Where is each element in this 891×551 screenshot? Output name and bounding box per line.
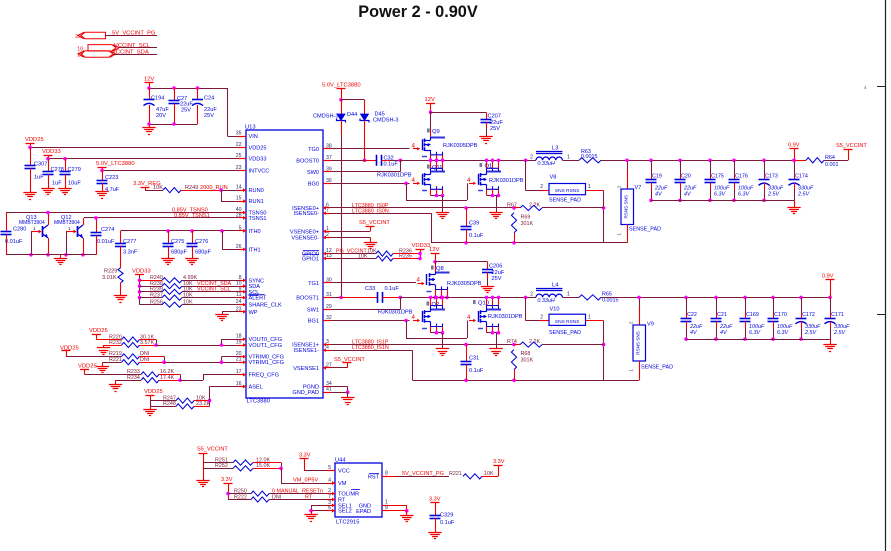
svg-text:S5_VCCINT: S5_VCCINT	[836, 143, 867, 149]
svg-text:RUN0: RUN0	[249, 188, 264, 194]
svg-text:680pF: 680pF	[171, 250, 187, 256]
svg-text:R229: R229	[104, 268, 117, 274]
svg-text:4: 4	[467, 177, 471, 184]
svg-text:4: 4	[417, 276, 421, 283]
svg-text:10K: 10K	[367, 249, 377, 255]
svg-text:1: 1	[68, 226, 71, 232]
svg-text:C277: C277	[123, 239, 136, 245]
svg-text:5V_VCCINT_PG: 5V_VCCINT_PG	[112, 31, 156, 37]
svg-text:R222: R222	[234, 494, 247, 500]
svg-text:25V: 25V	[181, 107, 191, 113]
svg-text:BG0: BG0	[308, 181, 319, 187]
svg-text:MMBT3904: MMBT3904	[19, 220, 45, 226]
svg-text:C21: C21	[717, 312, 727, 318]
svg-text:C176: C176	[735, 174, 748, 180]
svg-text:C275: C275	[171, 239, 184, 245]
svg-text:C19: C19	[652, 174, 662, 180]
svg-text:GPIO1: GPIO1	[302, 256, 319, 262]
svg-text:TG0: TG0	[308, 147, 319, 153]
svg-text:V10: V10	[550, 307, 560, 313]
svg-text:ASEL: ASEL	[249, 385, 263, 391]
svg-text:ITH0: ITH0	[249, 229, 261, 235]
svg-text:12V: 12V	[429, 247, 439, 253]
svg-text:R237: R237	[150, 292, 163, 298]
svg-text:0.33uH: 0.33uH	[537, 161, 554, 167]
svg-text:20: 20	[75, 34, 81, 40]
svg-text:RJK0301DPB: RJK0301DPB	[377, 173, 412, 179]
svg-text:VM: VM	[338, 481, 347, 487]
svg-text:5.0V_LTC3880: 5.0V_LTC3880	[322, 83, 361, 89]
svg-text:2: 2	[326, 232, 329, 238]
svg-text:12V: 12V	[144, 76, 154, 82]
svg-text:Q10: Q10	[478, 301, 489, 307]
svg-text:0.1uF: 0.1uF	[440, 520, 455, 526]
svg-text:VDD25: VDD25	[249, 145, 267, 151]
svg-text:ISENSE0-: ISENSE0-	[294, 211, 320, 217]
svg-text:SENSE_PAD: SENSE_PAD	[629, 227, 661, 233]
svg-text:2.2K: 2.2K	[529, 339, 540, 345]
svg-text:SENSE_PAD: SENSE_PAD	[549, 330, 581, 336]
svg-text:680pF: 680pF	[195, 250, 211, 256]
svg-text:3.3nF: 3.3nF	[123, 250, 138, 256]
svg-text:6.3V: 6.3V	[738, 192, 750, 198]
svg-text:0.0015: 0.0015	[602, 298, 619, 304]
svg-text:ITH1: ITH1	[249, 247, 261, 253]
svg-text:10K: 10K	[183, 300, 193, 306]
svg-text:Q1: Q1	[485, 164, 493, 170]
svg-text:7: 7	[326, 208, 329, 214]
svg-text:2: 2	[617, 185, 622, 188]
svg-text:C22: C22	[687, 312, 697, 318]
svg-text:R249: R249	[185, 185, 198, 191]
svg-text:BOOST1: BOOST1	[296, 295, 319, 301]
svg-text:VCC: VCC	[338, 469, 350, 475]
svg-text:0.1uF: 0.1uF	[469, 233, 484, 239]
svg-text:0.9V: 0.9V	[822, 274, 834, 280]
svg-text:2.5V: 2.5V	[833, 330, 846, 336]
svg-text:15: 15	[236, 196, 242, 202]
svg-text:6.3V: 6.3V	[777, 330, 789, 336]
svg-text:SENSE_PAD: SENSE_PAD	[549, 198, 581, 204]
svg-text:RUN1: RUN1	[249, 199, 264, 205]
svg-text:INTVCC: INTVCC	[249, 168, 270, 174]
svg-text:C171: C171	[831, 312, 844, 318]
svg-text:C194: C194	[151, 96, 164, 102]
svg-text:Q2: Q2	[432, 302, 440, 308]
svg-text:VDD33: VDD33	[132, 268, 151, 274]
svg-text:VCCINT_SCL: VCCINT_SCL	[197, 287, 231, 293]
svg-text:Q9: Q9	[432, 129, 440, 135]
svg-text:0.85V_TSNS1: 0.85V_TSNS1	[174, 213, 210, 219]
svg-text:U13: U13	[245, 125, 256, 131]
svg-text:R252: R252	[215, 463, 228, 469]
svg-text:6.3V: 6.3V	[749, 330, 761, 336]
svg-text:10K: 10K	[153, 185, 163, 191]
svg-text:35: 35	[236, 131, 242, 137]
svg-text:1: 1	[567, 292, 570, 298]
svg-text:U44: U44	[335, 458, 346, 464]
svg-text:2.5V: 2.5V	[767, 192, 780, 198]
svg-text:0.1uF: 0.1uF	[384, 162, 399, 168]
svg-text:20V: 20V	[156, 113, 166, 119]
svg-text:LTC3880: LTC3880	[247, 399, 270, 405]
svg-text:25V: 25V	[204, 113, 214, 119]
svg-text:MMBT3904: MMBT3904	[54, 220, 80, 226]
svg-text:V8: V8	[550, 175, 557, 181]
svg-text:C280: C280	[13, 227, 26, 233]
svg-text:GND_PAD: GND_PAD	[292, 390, 319, 396]
svg-text:SW1: SW1	[307, 308, 319, 314]
svg-text:BG1: BG1	[308, 319, 319, 325]
svg-text:5.0V_LTC3880: 5.0V_LTC3880	[96, 161, 135, 167]
svg-text:36: 36	[326, 178, 332, 184]
svg-text:37: 37	[326, 155, 332, 161]
svg-text:2.5V: 2.5V	[797, 192, 810, 198]
svg-text:V7: V7	[635, 185, 642, 191]
svg-text:5: 5	[328, 465, 331, 471]
svg-text:1: 1	[588, 315, 591, 321]
svg-text:Power 2 - 0.90V: Power 2 - 0.90V	[358, 3, 478, 21]
svg-text:C276: C276	[195, 239, 208, 245]
svg-text:4: 4	[326, 345, 329, 351]
svg-text:L3: L3	[552, 146, 558, 152]
svg-text:10: 10	[77, 53, 83, 59]
svg-text:Q8: Q8	[436, 266, 444, 272]
svg-text:21: 21	[236, 357, 242, 363]
svg-text:0.001: 0.001	[825, 162, 839, 168]
svg-text:2: 2	[540, 315, 543, 321]
svg-text:RSNS SNS: RSNS SNS	[635, 331, 640, 355]
svg-text:S5_VCCINT: S5_VCCINT	[197, 447, 228, 453]
svg-text:2: 2	[530, 292, 533, 298]
svg-text:C170: C170	[774, 312, 787, 318]
svg-text:3.3V: 3.3V	[429, 497, 441, 503]
svg-text:0.9V: 0.9V	[788, 143, 800, 149]
svg-text:VCCINT_SCL: VCCINT_SCL	[114, 43, 151, 49]
svg-text:S5_VCCINT: S5_VCCINT	[359, 220, 390, 226]
svg-text:1: 1	[588, 184, 591, 190]
svg-text:12V: 12V	[425, 97, 435, 103]
svg-text:R248: R248	[163, 401, 176, 407]
svg-text:C20: C20	[681, 174, 691, 180]
svg-text:3.01K: 3.01K	[102, 275, 117, 281]
svg-text:6.3V: 6.3V	[714, 192, 726, 198]
svg-text:C39: C39	[469, 221, 479, 227]
svg-text:25V: 25V	[492, 276, 502, 282]
svg-text:C175: C175	[711, 174, 724, 180]
svg-text:C207: C207	[488, 113, 501, 119]
svg-text:C169: C169	[746, 312, 759, 318]
svg-text:8: 8	[385, 471, 388, 477]
svg-text:VSENSE0-: VSENSE0-	[291, 236, 319, 242]
svg-text:0.1uF: 0.1uF	[385, 286, 400, 292]
svg-text:VTRIM1_CFG: VTRIM1_CFG	[249, 360, 284, 366]
svg-text:301K: 301K	[521, 221, 534, 227]
svg-text:2.5V: 2.5V	[804, 330, 817, 336]
svg-text:SENSE_PAD: SENSE_PAD	[641, 365, 673, 371]
svg-text:SEL2: SEL2	[338, 509, 352, 515]
svg-text:0.33uH: 0.33uH	[537, 298, 554, 304]
svg-text:6: 6	[328, 505, 331, 511]
svg-text:TSNS1: TSNS1	[249, 216, 267, 222]
svg-text:VSENSE1: VSENSE1	[293, 366, 319, 372]
svg-text:1: 1	[617, 233, 622, 236]
svg-text:CMDSH-3: CMDSH-3	[313, 114, 338, 120]
svg-text:VDD33: VDD33	[42, 149, 61, 155]
svg-text:0.01uF: 0.01uF	[5, 239, 23, 245]
svg-text:C223: C223	[105, 175, 118, 181]
svg-text:VSENSE0+: VSENSE0+	[290, 229, 319, 235]
svg-text:SW0: SW0	[307, 170, 319, 176]
svg-text:0.01uF: 0.01uF	[97, 239, 115, 245]
svg-text:VM_0P5V: VM_0P5V	[293, 478, 318, 484]
svg-text:25V: 25V	[490, 126, 500, 132]
svg-text:9: 9	[385, 505, 388, 511]
svg-text:C206: C206	[489, 263, 502, 269]
svg-text:C329: C329	[440, 513, 453, 519]
svg-text:1: 1	[629, 369, 634, 372]
svg-text:41: 41	[326, 387, 332, 393]
svg-text:RSNS SNS: RSNS SNS	[623, 195, 628, 219]
svg-text:19: 19	[236, 340, 242, 346]
svg-text:2: 2	[629, 321, 634, 324]
svg-text:BOOST0: BOOST0	[296, 158, 319, 164]
svg-text:C31: C31	[469, 356, 479, 362]
svg-text:V9: V9	[647, 322, 654, 328]
svg-text:VDD33: VDD33	[412, 243, 431, 249]
svg-text:CMDSH-3: CMDSH-3	[373, 118, 398, 124]
svg-text:R221: R221	[449, 471, 462, 477]
svg-text:C24: C24	[204, 96, 214, 102]
svg-text:ISENSE1-: ISENSE1-	[294, 348, 320, 354]
svg-text:3.3V: 3.3V	[221, 477, 233, 483]
svg-text:VDD25: VDD25	[144, 389, 163, 395]
svg-text:C174: C174	[795, 174, 808, 180]
svg-text:RJK0301DPB: RJK0301DPB	[488, 314, 523, 320]
svg-text:10K: 10K	[358, 254, 368, 260]
svg-text:RST: RST	[368, 475, 380, 481]
svg-text:TG1: TG1	[308, 281, 319, 287]
svg-text:3.3V: 3.3V	[299, 453, 311, 459]
svg-text:2.2K: 2.2K	[529, 202, 540, 208]
svg-text:4: 4	[328, 478, 331, 484]
svg-text:EPAD: EPAD	[356, 509, 371, 515]
svg-text:C172: C172	[802, 312, 815, 318]
svg-text:10uF: 10uF	[68, 181, 81, 187]
svg-text:3.3V: 3.3V	[493, 459, 505, 465]
svg-text:VCCINT_SDA: VCCINT_SDA	[112, 49, 149, 55]
svg-text:C33: C33	[365, 286, 375, 292]
svg-text:WP: WP	[249, 310, 258, 316]
svg-text:C274: C274	[101, 227, 114, 233]
svg-text:5V_VCCINT_PG: 5V_VCCINT_PG	[402, 471, 444, 477]
svg-text:2000_RUN: 2000_RUN	[200, 185, 228, 191]
svg-text:RJK0305DPB: RJK0305DPB	[443, 143, 478, 149]
svg-text:5: 5	[239, 225, 242, 231]
svg-text:R69: R69	[521, 215, 531, 221]
svg-text:VOUT1_CFG: VOUT1_CFG	[249, 343, 283, 349]
svg-text:C173: C173	[765, 174, 778, 180]
svg-text:LTC2915: LTC2915	[336, 520, 359, 526]
svg-text:RJK0305DPB: RJK0305DPB	[447, 281, 482, 287]
svg-text:VDD25: VDD25	[89, 328, 108, 334]
svg-text:C307: C307	[34, 161, 47, 167]
svg-text:0.1uF: 0.1uF	[469, 368, 484, 374]
svg-text:14: 14	[236, 185, 242, 191]
svg-text:SNS RSNS: SNS RSNS	[555, 319, 580, 325]
svg-text:VDD33: VDD33	[249, 157, 267, 163]
svg-text:1: 1	[326, 226, 329, 232]
svg-text:Q11: Q11	[432, 165, 443, 171]
svg-text:301K: 301K	[521, 357, 534, 363]
svg-text:26: 26	[236, 244, 242, 250]
svg-text:FREQ_CFG: FREQ_CFG	[249, 373, 279, 379]
svg-text:4: 4	[412, 177, 416, 184]
svg-text:C279: C279	[68, 167, 81, 173]
svg-text:ALERT: ALERT	[249, 296, 268, 302]
svg-text:R68: R68	[521, 351, 531, 357]
svg-text:D44: D44	[347, 112, 357, 118]
svg-text:1: 1	[33, 226, 36, 232]
svg-text:VDD25: VDD25	[78, 363, 97, 369]
svg-text:RJK0301DPB: RJK0301DPB	[489, 178, 524, 184]
svg-text:L4: L4	[552, 283, 559, 289]
svg-text:2: 2	[530, 155, 533, 161]
svg-text:R256: R256	[150, 300, 163, 306]
svg-text:VDD25: VDD25	[25, 137, 44, 143]
svg-text:1: 1	[567, 155, 570, 161]
svg-text:10K: 10K	[183, 292, 193, 298]
svg-text:VIN: VIN	[249, 134, 258, 140]
svg-text:2: 2	[540, 184, 543, 190]
svg-text:0.0015: 0.0015	[581, 154, 598, 160]
svg-text:RJK0301DPB: RJK0301DPB	[378, 309, 413, 315]
svg-text:SNS RSNS: SNS RSNS	[555, 188, 580, 194]
svg-text:1uF: 1uF	[52, 181, 62, 187]
svg-text:SHARE_CLK: SHARE_CLK	[249, 303, 283, 309]
